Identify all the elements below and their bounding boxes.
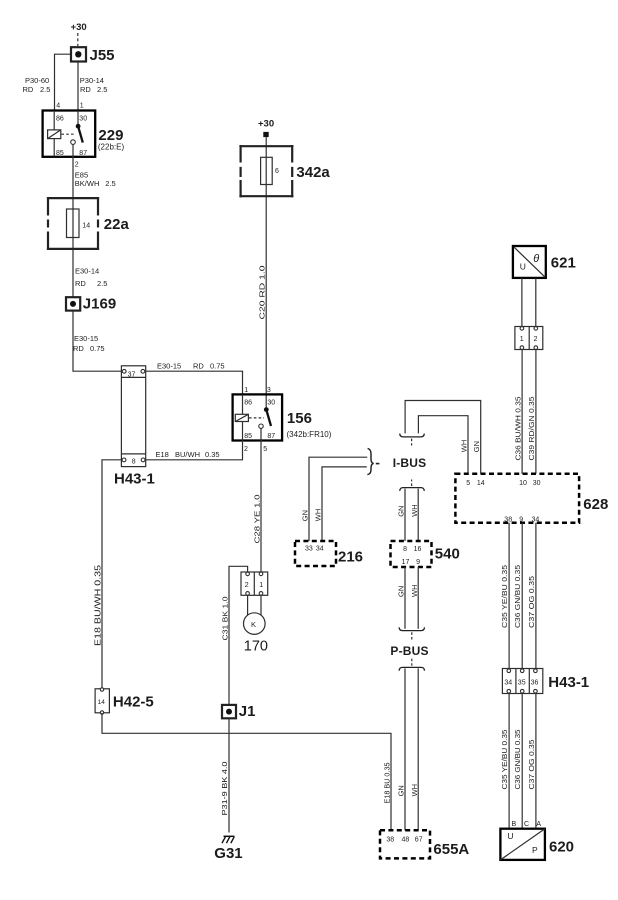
relay 156 coil to 85 wire [242,422,244,441]
svg-text:RD: RD [23,85,34,94]
fuse holder 22a body [47,197,99,199]
SECTION: middle column [146,118,332,862]
svg-text:38: 38 [386,837,394,844]
svg-text:36: 36 [531,679,539,686]
svg-text:34: 34 [504,679,512,686]
svg-text:342a: 342a [296,164,330,181]
svg-text:540: 540 [435,546,460,563]
wire E30-15 RD 0.75 from H43-1 pin 37 to relay 156 pin 1 [146,371,243,394]
svg-text:GN: GN [472,441,481,452]
svg-text:C20 RD 1.0: C20 RD 1.0 [258,266,267,320]
svg-text:BU/WH: BU/WH [175,450,200,459]
wires 621 to its connector [522,278,536,327]
svg-text:(342b:FR10): (342b:FR10) [287,430,332,439]
svg-text:2: 2 [245,582,249,589]
svg-text:E18 BU/WH 0.35: E18 BU/WH 0.35 [94,564,103,646]
junction J169 [66,297,80,310]
svg-text:RD: RD [75,279,86,288]
svg-text:48: 48 [402,837,410,844]
SECTION: bus column [295,401,481,859]
wire C36 BU/WH 0.35 to 628 pin 10 [521,350,523,474]
wire GN I-BUS to 540 pin 8 [404,489,406,541]
relay 156 coil feed wire [242,394,244,414]
svg-text:+30: +30 [258,118,274,129]
relay 156 body [233,394,283,440]
svg-text:C36 GN/BU 0.35: C36 GN/BU 0.35 [513,565,522,628]
svg-text:1: 1 [520,336,524,343]
wire C39 RD/GN 0.35 to 628 pin 30 [535,350,537,474]
SECTION: right column [455,246,608,860]
svg-text:A: A [536,821,541,828]
svg-text:2: 2 [534,336,538,343]
svg-text:P31-9 BK 4.0: P31-9 BK 4.0 [220,762,229,816]
svg-text:30: 30 [533,480,541,487]
wire GN connector 216 pin 33 to I-BUS [309,457,367,541]
wire C28 YE 1.0 relay 156 pin 5 to pump connector pin 1 [260,428,262,572]
svg-text:87: 87 [267,433,275,440]
svg-text:C39 RD/GN 0.35: C39 RD/GN 0.35 [527,397,536,461]
relay 156 coil [235,414,248,421]
svg-text:1: 1 [80,103,84,110]
svg-text:14: 14 [98,699,106,706]
svg-text:216: 216 [338,549,363,566]
P-BUS upper bracket [399,627,424,630]
svg-text:621: 621 [551,255,576,272]
wire WH 540 pin 9 to P-BUS [417,567,419,629]
relay 229 actuation dashed link [61,133,75,135]
svg-text:WH: WH [410,585,419,598]
svg-text:U: U [520,262,526,272]
pressure sensor 620 [500,829,545,860]
wire E18 BU/WH 0.35 from H43-1 pin 8 down to H42-5 [102,460,121,689]
svg-text:1: 1 [259,582,263,589]
svg-text:5: 5 [466,480,470,487]
svg-text:37: 37 [128,371,136,378]
connector H43-1 (right) body [502,669,542,694]
svg-text:655A: 655A [433,841,469,858]
relay 229 switch pivot [76,124,81,129]
svg-text:67: 67 [415,837,423,844]
wire E85 BK/WH 2.5 relay 229 to fuse 22a [72,144,74,296]
svg-text:C35 YE/BU 0.35: C35 YE/BU 0.35 [500,730,509,790]
svg-text:C28 YE 1.0: C28 YE 1.0 [253,495,262,544]
connector 540 body [391,541,432,567]
relay 229 switch arm [78,126,83,142]
svg-text:6: 6 [275,168,279,175]
svg-text:H43-1: H43-1 [114,470,155,487]
wire C20 RD 1.0 from +30 through fuse 342a to relay 156 pin 3 [265,137,267,407]
connector H42-5 body [95,689,109,713]
svg-text:17: 17 [402,559,410,566]
wire GN 628 pin 14 to I-BUS [405,401,481,474]
svg-text:E18: E18 [156,450,169,459]
svg-text:C37 OG 0.35: C37 OG 0.35 [527,576,536,628]
svg-text:RD: RD [80,85,91,94]
wire WH 628 pin 5 to I-BUS [418,416,468,474]
svg-text:2.5: 2.5 [105,179,115,188]
svg-text:P30-60: P30-60 [25,76,49,85]
svg-text:+30: +30 [71,22,87,33]
svg-text:P: P [532,845,538,855]
svg-text:GN: GN [301,510,310,521]
svg-text:0.75: 0.75 [210,361,225,370]
svg-text:170: 170 [244,638,268,654]
svg-text:2.5: 2.5 [97,85,107,94]
svg-text:8: 8 [132,458,136,465]
svg-text:C37 OG 0.35: C37 OG 0.35 [527,740,536,790]
I-BUS lower bracket [400,488,425,491]
svg-text:14: 14 [82,222,90,229]
svg-text:J55: J55 [90,47,115,64]
wire GN P-BUS to 655A pin 48 [404,668,406,830]
wire C35 YE/BU 0.35 628 pin 38 to H43-1 pin 34 [508,523,510,669]
relay 229 contact 87 [71,140,76,145]
svg-text:4: 4 [56,103,60,110]
SECTION: left column [23,22,392,830]
svg-text:U: U [507,831,513,841]
svg-text:E30-14: E30-14 [75,267,99,276]
connector H43-1 (left) body [121,366,145,467]
svg-text:H42-5: H42-5 [113,693,154,710]
relay 229 coil [48,130,61,139]
svg-text:10: 10 [519,480,527,487]
svg-text:H43-1: H43-1 [548,674,589,691]
svg-text:156: 156 [287,410,312,427]
fuse element 14 in 22a [67,209,80,238]
svg-text:229: 229 [98,127,123,144]
svg-text:34: 34 [316,546,324,553]
svg-text:θ: θ [533,253,539,265]
wire WH connector 216 pin 34 to I-BUS [322,467,367,541]
svg-text:WH: WH [410,504,419,517]
svg-text:RD: RD [193,361,204,370]
svg-text:3: 3 [267,387,271,394]
I-BUS joining brace [367,448,373,474]
svg-text:8: 8 [403,546,407,553]
svg-text:GN: GN [397,785,406,796]
svg-text:J169: J169 [83,296,116,313]
temperature sensor 621 [513,246,546,278]
svg-text:G31: G31 [214,845,242,862]
wire P31-9 BK 4.0 J1 to ground G31 [228,718,230,832]
sensor 621 connector body [515,327,543,350]
I-BUS upper bracket [400,434,425,437]
wire C36 GN/BU 0.35 H43-1 pin 35 to 620 pin C [521,694,523,829]
svg-text:P-BUS: P-BUS [390,644,428,658]
svg-text:620: 620 [549,838,574,855]
relay 156 contact 87 [259,424,263,428]
wire C36 GN/BU 0.35 628 pin 9 to H43-1 pin 35 [521,523,523,669]
svg-text:WH: WH [460,440,469,453]
svg-text:30: 30 [79,116,87,123]
fuse holder 342a body [239,145,293,147]
wire GN 540 pin 17 to P-BUS [404,567,406,629]
wire C31 BK 1.0 pump connector pin 2 to J1 [229,566,248,705]
svg-text:34: 34 [532,516,540,523]
svg-text:16: 16 [414,546,422,553]
relay 229 coil to 85 wire [53,139,55,157]
svg-text:GN: GN [397,586,406,597]
pump 170 connector body [241,572,268,595]
control module 628 body [455,474,579,523]
svg-text:86: 86 [244,400,252,407]
svg-text:2.5: 2.5 [40,85,50,94]
wire H42-5 down and across to 655A pin 38 [102,713,391,830]
svg-text:B: B [512,821,517,828]
svg-text:5: 5 [263,446,267,453]
P-BUS lower bracket [399,667,424,670]
svg-text:2: 2 [244,446,248,453]
svg-text:35: 35 [518,679,526,686]
svg-text:30: 30 [267,400,275,407]
svg-text:33: 33 [305,546,313,553]
pump motor 170 [244,613,266,635]
ground G31 [224,835,235,837]
svg-text:2.5: 2.5 [97,279,107,288]
svg-text:GN: GN [397,506,406,517]
svg-text:86: 86 [56,116,64,123]
junction J1 [222,705,236,718]
connector 216 body [295,541,336,566]
svg-text:C36 GN/BU 0.35: C36 GN/BU 0.35 [513,730,522,790]
svg-text:WH: WH [410,784,419,797]
wire WH P-BUS to 655A pin 67 [417,668,419,830]
wire C37 OG 0.35 628 pin 34 to H43-1 pin 36 [535,523,537,669]
svg-text:85: 85 [244,433,252,440]
wire E18 BU/WH 0.35 relay 156 pin 2 to H43-1 pin 8 [146,441,243,460]
wire P30-60 J55 to relay 229 pin 4 [55,54,72,110]
svg-text:RD: RD [73,344,84,353]
svg-text:C: C [524,821,529,828]
svg-text:E18 BU 0.35: E18 BU 0.35 [383,763,392,804]
svg-text:BK/WH: BK/WH [75,179,100,188]
connector 655A body [380,830,430,858]
svg-text:14: 14 [477,480,485,487]
fuse element 6 in 342a [261,157,273,184]
svg-text:C36 BU/WH 0.35: C36 BU/WH 0.35 [513,397,522,461]
relay 229 terminal 30 feed [77,111,79,125]
wire E30-15 RD 0.75 J169 down and to H43-1 pin 37 [73,311,121,372]
wire C35 YE/BU 0.35 H43-1 pin 34 to 620 pin B [508,694,510,829]
relay 229 body [43,111,96,157]
svg-text:K: K [251,620,256,629]
svg-text:0.75: 0.75 [90,344,105,353]
svg-text:9: 9 [416,559,420,566]
relay 156 actuation dashed link [249,417,264,419]
svg-text:2: 2 [75,162,79,169]
svg-text:E30-15: E30-15 [74,334,98,343]
relay 229 coil feed wire [53,111,55,131]
svg-text:1: 1 [244,387,248,394]
svg-text:C35 YE/BU 0.35: C35 YE/BU 0.35 [500,565,509,628]
svg-text:I-BUS: I-BUS [393,456,427,470]
svg-text:22a: 22a [104,216,130,233]
wire C37 OG 0.35 H43-1 pin 36 to 620 pin A [535,694,537,829]
relay 156 switch pivot [264,407,269,412]
svg-text:85: 85 [56,150,64,157]
svg-text:E30-15: E30-15 [157,361,181,370]
svg-text:87: 87 [79,150,87,157]
svg-text:J1: J1 [239,703,256,720]
wire P30-14 J55 to relay 229 pin 1 [77,62,79,111]
wires connector to pump motor [248,595,261,615]
svg-text:C31 BK 1.0: C31 BK 1.0 [220,597,229,641]
svg-text:9: 9 [519,516,523,523]
svg-text:(22b:E): (22b:E) [98,143,125,152]
wire WH I-BUS to 540 pin 16 [417,489,419,541]
svg-text:P30-14: P30-14 [80,76,104,85]
wire +30 dashed feed to J55 [77,33,79,46]
svg-text:38: 38 [504,516,512,523]
svg-text:628: 628 [583,496,608,513]
junction J55 [71,47,86,61]
relay 156 switch arm [266,410,271,426]
svg-text:WH: WH [314,509,323,522]
svg-text:0.35: 0.35 [205,450,220,459]
